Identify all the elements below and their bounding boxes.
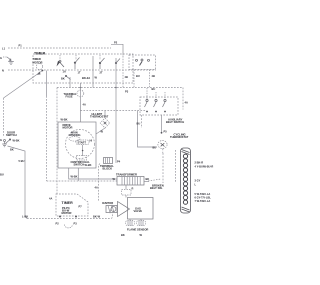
svg-text:P5: P5 (164, 130, 168, 134)
wire N rail (8, 69, 156, 71)
wire N bus mid rail (57, 87, 183, 89)
svg-text:P4: P4 (117, 160, 121, 164)
wire dashed drop to lower timer (56, 88, 58, 195)
svg-text:4 Y-BU/W-BU-R: 4 Y-BU/W-BU-R (195, 165, 214, 169)
timer TIMER box 1 (33, 54, 133, 83)
svg-text:BU: BU (137, 122, 141, 126)
wire transformer bottom (125, 185, 127, 189)
svg-text:W-BK: W-BK (85, 163, 92, 167)
switch contact 2T (99, 62, 101, 64)
svg-text:BK-W: BK-W (93, 215, 101, 219)
switch contact lower in timer (65, 75, 67, 77)
svg-text:P1: P1 (19, 44, 23, 48)
switch contact 1A (59, 55, 61, 60)
valve coil 2 (137, 221, 146, 226)
wire door switch down (8, 146, 28, 219)
svg-text:W-BK: W-BK (71, 175, 78, 179)
wire L1 drop (122, 56, 124, 88)
svg-text:P7: P7 (79, 205, 83, 209)
svg-text:THERMOSTAT: THERMOSTAT (90, 115, 109, 119)
svg-text:4A: 4A (185, 101, 188, 105)
svg-text:TRANSFORMER: TRANSFORMER (116, 173, 137, 177)
svg-text:5 BU: 5 BU (19, 159, 25, 163)
centrifugal switch (82, 145, 84, 156)
svg-text:MOTOR: MOTOR (62, 211, 72, 215)
wire L1 jog to start switch (111, 44, 123, 55)
terminal block small (104, 158, 113, 164)
svg-text:HI: HI (90, 139, 93, 143)
wire dashed to transformer (47, 180, 117, 182)
svg-text:BLOCK: BLOCK (103, 166, 113, 170)
wire contact 1T drop (69, 77, 71, 88)
svg-text:5 W-T/BU-LA: 5 W-T/BU-LA (195, 192, 211, 196)
drive motor box (58, 122, 96, 168)
svg-text:P3: P3 (74, 222, 78, 226)
svg-text:BU: BU (0, 173, 4, 177)
svg-text:BK: BK (10, 148, 14, 152)
terminal strip (181, 148, 191, 213)
svg-text:W-BK: W-BK (13, 139, 20, 143)
wire right drop 4A (182, 88, 184, 110)
svg-text:4B: 4B (125, 75, 128, 79)
svg-text:TIMER: TIMER (62, 201, 74, 205)
diagonal wire door switch to timer (4, 71, 43, 99)
svg-text:R: R (132, 187, 134, 191)
svg-text:L-BK: L-BK (22, 215, 28, 219)
svg-text:BK: BK (146, 177, 150, 181)
wire hi-limit branch (80, 110, 146, 112)
coil feed wires (130, 219, 141, 221)
junction (115, 87, 117, 89)
svg-text:7 W-T/BU-LA: 7 W-T/BU-LA (195, 199, 211, 203)
svg-text:4A: 4A (49, 197, 52, 201)
flame detector triangle (111, 207, 116, 212)
svg-text:VALVE: VALVE (134, 209, 143, 213)
svg-text:2 BK-R: 2 BK-R (195, 161, 204, 165)
svg-text:SWITCH: SWITCH (6, 133, 17, 137)
start switch contacts (136, 59, 138, 61)
start switch box (129, 55, 156, 70)
wire to broken belt sw (148, 179, 161, 181)
svg-text:6 GY-T/Y-LBL: 6 GY-T/Y-LBL (195, 196, 212, 200)
svg-text:TIMER: TIMER (34, 52, 46, 56)
svg-text:BELT SW.: BELT SW. (150, 186, 163, 190)
wire L1 rail (8, 47, 111, 49)
wire left edge drop (3, 98, 5, 137)
svg-text:G: G (0, 138, 2, 142)
svg-text:1T: 1T (78, 71, 81, 75)
svg-text:BK: BK (121, 233, 125, 237)
svg-text:SWITCH: SWITCH (74, 162, 85, 166)
wire to cycling stat (138, 111, 158, 148)
start winding (76, 140, 89, 145)
wire aux drop (174, 150, 176, 183)
motor exits (69, 168, 117, 179)
svg-text:BU: BU (136, 74, 140, 78)
svg-text:1A: 1A (63, 70, 66, 74)
svg-text:3 GY: 3 GY (195, 179, 201, 183)
svg-text:BK: BK (61, 77, 65, 81)
switch contact 4B (115, 62, 117, 64)
svg-text:BK-2A: BK-2A (82, 76, 90, 80)
wires below belt switch (141, 115, 143, 128)
lower TIMER box (56, 194, 88, 216)
wire left long drop from timer (46, 71, 48, 97)
svg-text:P2: P2 (56, 222, 60, 226)
motor internals circle (66, 130, 95, 159)
wire W drop (92, 56, 94, 88)
svg-text:N: N (2, 69, 4, 73)
wire hi-limit feed (115, 58, 117, 163)
wire start switch drop BU (133, 70, 135, 88)
wire block to ignitor (99, 164, 101, 202)
gas valve box (128, 198, 154, 220)
lower timer terminals (59, 216, 61, 218)
svg-text:START: START (78, 141, 87, 145)
svg-text:MOTOR: MOTOR (63, 126, 73, 130)
valve coil 1 (126, 221, 135, 226)
svg-text:FUSE: FUSE (66, 95, 73, 99)
svg-text:FLAME SENSOR: FLAME SENSOR (127, 227, 148, 231)
wire transformer right (144, 181, 149, 183)
wire cycling stat down (162, 149, 164, 184)
svg-text:4A: 4A (83, 103, 86, 107)
svg-text:BELT SWITCH: BELT SWITCH (166, 120, 184, 124)
svg-text:2T: 2T (100, 71, 103, 75)
svg-text:THERMOSTAT: THERMOSTAT (170, 135, 189, 139)
svg-text:P3: P3 (125, 90, 129, 94)
svg-text:IGNITOR: IGNITOR (102, 201, 113, 205)
svg-text:4B: 4B (152, 74, 155, 78)
switch contact 1T (74, 62, 76, 64)
belt switch contacts (146, 99, 148, 101)
svg-text:BU: BU (152, 87, 156, 91)
wire start switch drop 4B (149, 70, 151, 88)
svg-text:P2: P2 (114, 41, 118, 45)
junction (80, 87, 82, 89)
svg-text:W-BK: W-BK (61, 118, 68, 122)
belt switch box (140, 97, 178, 115)
svg-text:BU: BU (153, 146, 157, 150)
svg-text:G: G (0, 56, 2, 60)
svg-text:4A: 4A (95, 186, 98, 190)
connector P8 (122, 190, 132, 196)
ground at door switch (2, 142, 7, 147)
